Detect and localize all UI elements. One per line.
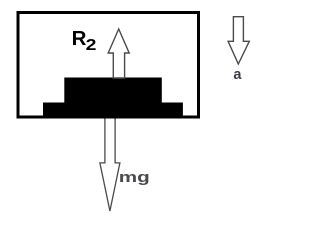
force arrow R2 (hollow up arrow) (108, 29, 129, 78)
svg-text:a: a (233, 67, 242, 83)
acceleration arrow a (hollow down arrow at right) (228, 17, 249, 64)
svg-text:R: R (72, 27, 87, 50)
svg-text:2: 2 (86, 37, 97, 54)
weight arrow mg (hollow down arrow below box) (100, 117, 120, 211)
object (stepped black block) (43, 78, 183, 119)
svg-text:mg: mg (119, 169, 150, 186)
box (lift floor outline) (18, 13, 199, 118)
